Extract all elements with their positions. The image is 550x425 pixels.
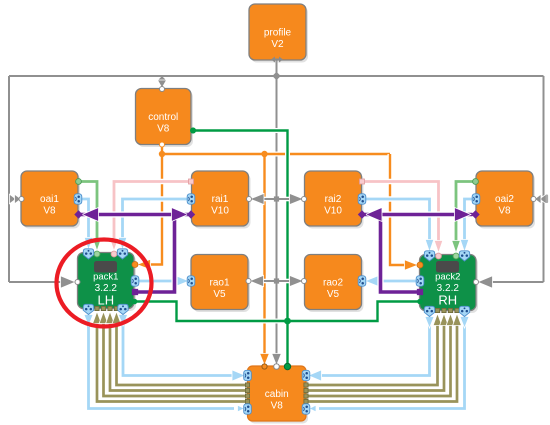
node green port cabin top redraw	[284, 363, 290, 369]
wire orange horizontal	[162, 152, 390, 157]
arrow purple into rai2	[366, 208, 383, 222]
port pack1 orange in	[132, 262, 138, 268]
wire blue pack2 to rao2	[377, 278, 417, 283]
bus icon oai1 right	[74, 194, 82, 204]
wire green control to cabin	[192, 131, 288, 367]
svg-text:rao1: rao1	[209, 278, 229, 289]
wire stub to oai1	[9, 198, 12, 200]
wire purple branch to pack1	[137, 215, 175, 293]
arrow pink into pack1 top	[110, 239, 119, 252]
bus icon rai2 right	[358, 194, 366, 204]
port oai1 green out	[76, 179, 82, 185]
port rai2 purple diamond	[358, 210, 366, 218]
wire gray left drop	[8, 76, 10, 282]
port pack1 green side	[132, 299, 138, 305]
arrow light green into pack2 top	[452, 241, 461, 254]
port cabin top orange	[262, 364, 267, 369]
wire gray right drop	[543, 76, 545, 282]
arrow orange into pack1 right	[137, 259, 151, 269]
wire pink rai1 to pack1	[114, 182, 190, 241]
svg-text:oai1: oai1	[40, 194, 59, 205]
arrow into rao2 left	[290, 275, 304, 286]
port rai1 purple diamond	[187, 210, 195, 218]
node orange junction under control	[159, 151, 165, 157]
wire blue rai2 to pack2 topleft	[363, 199, 430, 241]
component control	[138, 91, 194, 147]
node green junction	[284, 318, 291, 325]
component rao2	[307, 257, 364, 312]
svg-text:V8: V8	[271, 401, 284, 412]
wire khaki pack2-cabin group	[307, 321, 438, 385]
arrow pink into pack2 top	[434, 241, 443, 254]
port cabin top gray	[274, 364, 280, 370]
port pack2 green top	[453, 253, 459, 259]
node bus junction below profile	[272, 72, 280, 80]
port rai1 right	[247, 197, 252, 202]
wire gray center drop	[274, 76, 279, 354]
svg-text:V10: V10	[324, 206, 342, 217]
arrow into oai1 left double chevron	[10, 194, 17, 204]
connector icon below profile	[271, 57, 283, 63]
bus icon rao1 left	[187, 276, 195, 286]
arrow purple into oai2	[455, 208, 472, 222]
port pack1 pink top	[111, 251, 117, 257]
port pack2 pink top	[436, 253, 442, 259]
bus icon cabin bottomleft	[244, 404, 252, 414]
arrow into pack1 left	[61, 276, 76, 289]
bus icon rai1 left	[187, 194, 195, 204]
arrow into rao1 right	[250, 275, 264, 286]
svg-text:V2: V2	[271, 39, 284, 50]
arrow into rai2 left	[290, 193, 304, 204]
svg-text:V5: V5	[213, 289, 226, 300]
port rao2 left	[302, 279, 307, 284]
bus icon oai2 left	[472, 194, 480, 204]
arrow orange into cabin top	[260, 354, 270, 366]
svg-text:LH: LH	[97, 293, 114, 308]
port oai1 left	[19, 197, 24, 202]
wire profile stub	[276, 60, 278, 76]
wire stub to rao1	[260, 279, 277, 284]
wire blue pack1 bottomleft to cabin	[89, 315, 235, 409]
bus icon rao2 right	[358, 276, 366, 286]
bus icon pack1 topright	[117, 249, 127, 259]
wire gray main bus	[9, 75, 544, 77]
node junction above control	[159, 76, 166, 83]
component oai1	[23, 174, 80, 229]
node green port cabin top	[285, 364, 291, 370]
port pack2 green side	[417, 299, 423, 305]
svg-text:rai2: rai2	[325, 194, 342, 205]
svg-text:V8: V8	[498, 206, 511, 217]
wire blue rai1 to pack1 topright	[123, 199, 191, 239]
port oai2 right	[531, 197, 536, 202]
svg-text:V8: V8	[157, 124, 170, 135]
component oai2	[478, 174, 535, 229]
component pack1	[80, 255, 137, 311]
wire blue pack1 to rao1	[137, 278, 177, 283]
arrow purple into oai1	[82, 208, 99, 222]
component rao1	[193, 257, 250, 312]
arrow into oai2 right double chevron	[540, 194, 547, 204]
wire blue oai2 to pack2 topright	[465, 199, 474, 241]
bus icon pack1 bottomleft	[83, 304, 93, 314]
component pack2	[422, 257, 479, 313]
port pack1 green top	[94, 251, 100, 257]
svg-text:pack1: pack1	[93, 272, 118, 283]
svg-text:cabin: cabin	[265, 389, 289, 400]
ports pack1 khaki bottom	[95, 306, 99, 310]
wire blue oai1 to pack1 topleft	[80, 199, 89, 239]
wire green pack1 to pack2 low route	[135, 302, 419, 322]
bus icon pack2 topright	[459, 251, 469, 261]
arrow orange into pack2 left	[405, 260, 419, 270]
bus icon cabin topleft	[244, 370, 252, 380]
svg-text:V10: V10	[211, 206, 229, 217]
svg-text:pack2: pack2	[435, 272, 460, 283]
wire orange center down to cabin	[262, 154, 267, 354]
wire stub to rao2	[277, 279, 293, 284]
wire gray into pack2	[490, 281, 544, 283]
node orange junction center	[261, 151, 267, 157]
wire stub to oai2	[544, 198, 546, 200]
wire stub to rai1	[261, 197, 277, 202]
port oai2 green out	[473, 179, 479, 185]
arrow into pack2 right	[478, 276, 493, 289]
bus icon cabin bottomright	[302, 404, 310, 414]
wire blue pack2 bottomright to cabin	[319, 317, 465, 409]
small gray tick right edge	[546, 195, 549, 204]
component profile	[251, 7, 308, 63]
ports pack2 khaki bottom	[435, 308, 439, 312]
red highlight ellipse around pack1	[57, 240, 152, 327]
svg-text:RH: RH	[438, 293, 457, 308]
wire purple rai2-oai2	[364, 211, 473, 217]
wire control stub	[161, 76, 163, 82]
port rao1 right	[246, 279, 251, 284]
port control top	[160, 87, 165, 92]
wire orange from control down	[151, 145, 163, 265]
bus icon pack2 bottomright	[459, 306, 469, 316]
wire purple branch to pack2	[381, 215, 419, 293]
port pack1 purple square	[132, 289, 138, 295]
svg-text:V5: V5	[327, 289, 340, 300]
arrow into cabin top	[272, 354, 282, 366]
bus icon pack1 bottomright	[118, 304, 128, 314]
wire blue pack1 bottomright to cabin	[123, 315, 234, 376]
wire orange right branch down	[390, 154, 405, 265]
bus icon pack2 left	[416, 276, 424, 286]
port oai2 purple diamond	[471, 210, 479, 218]
wire purple oai1-rai1	[81, 211, 189, 217]
node gray junction rao level	[274, 278, 279, 283]
svg-text:profile: profile	[264, 28, 292, 39]
wire blue pack2 bottomleft to cabin	[319, 317, 430, 376]
node green port control right redraw	[190, 128, 196, 134]
port pack2 orange in	[417, 262, 423, 268]
arrow purple into rai1	[172, 208, 189, 222]
ports cabin khaki left	[245, 399, 249, 403]
port rai2 pink out	[360, 179, 365, 184]
svg-text:control: control	[148, 112, 178, 123]
ports cabin khaki right	[304, 383, 308, 387]
svg-text:rai1: rai1	[212, 194, 229, 205]
port rai1 pink out	[189, 179, 194, 184]
bus icon pack2 topleft	[424, 251, 434, 261]
svg-text:rao2: rao2	[323, 278, 343, 289]
svg-text:oai2: oai2	[495, 194, 514, 205]
component cabin	[250, 369, 309, 424]
port pack2 purple square	[417, 289, 423, 295]
port oai1 purple diamond	[74, 210, 82, 218]
wire light green oai2 to pack2	[456, 182, 474, 243]
bus icon cabin topright	[302, 370, 310, 380]
arrow into control top	[157, 80, 166, 88]
component rai2	[307, 174, 364, 229]
wire pink rai2 to pack2	[363, 182, 439, 243]
wire light green oai1 to pack1	[79, 182, 97, 241]
svg-text:V8: V8	[43, 206, 56, 217]
port rai2 left	[302, 197, 307, 202]
component rai1	[194, 174, 251, 229]
wire gray into pack1	[9, 281, 63, 283]
arrow into rai1 right	[250, 193, 264, 204]
port pack1 left	[75, 280, 80, 285]
node gray junction rai level	[274, 196, 279, 201]
port control bottom	[160, 142, 165, 147]
bus icon pack2 bottomleft	[424, 306, 434, 316]
port pack2 right	[474, 280, 479, 285]
arrow light green into pack1 top	[93, 239, 102, 252]
wire khaki pack1-cabin group	[97, 319, 247, 402]
bus icon pack1 topleft	[83, 249, 93, 259]
bus icon pack1 right	[131, 276, 139, 286]
node green port control right	[190, 128, 196, 134]
wire stub to rai2	[277, 197, 293, 202]
